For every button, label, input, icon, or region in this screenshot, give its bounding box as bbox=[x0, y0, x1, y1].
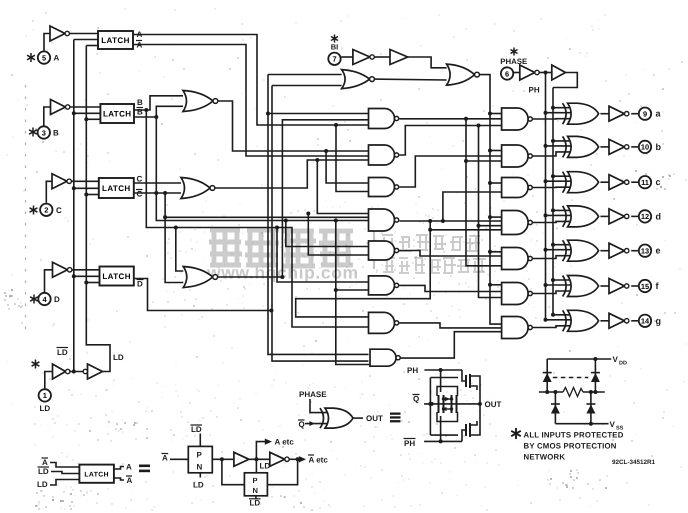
svg-text:A: A bbox=[127, 476, 133, 485]
svg-text:LD: LD bbox=[37, 480, 48, 489]
svg-text:Q: Q bbox=[413, 395, 419, 404]
svg-text:OUT: OUT bbox=[366, 414, 383, 423]
svg-text:A: A bbox=[54, 54, 60, 63]
svg-text:BI: BI bbox=[331, 43, 339, 52]
svg-text:B: B bbox=[137, 108, 143, 117]
svg-text:NETWORK: NETWORK bbox=[524, 453, 566, 462]
svg-text:LD: LD bbox=[57, 348, 68, 357]
svg-text:6: 6 bbox=[505, 69, 509, 78]
svg-text:10: 10 bbox=[641, 143, 649, 152]
svg-text:OUT: OUT bbox=[485, 400, 502, 409]
svg-text:LATCH: LATCH bbox=[101, 36, 130, 45]
svg-text:LD: LD bbox=[260, 462, 271, 471]
svg-text:LATCH: LATCH bbox=[102, 184, 131, 193]
svg-text:DD: DD bbox=[619, 361, 627, 367]
svg-text:13: 13 bbox=[641, 247, 649, 256]
svg-text:A etc: A etc bbox=[309, 455, 329, 464]
svg-text:LD: LD bbox=[191, 425, 202, 434]
svg-text:7: 7 bbox=[332, 55, 336, 64]
svg-text:C: C bbox=[137, 175, 143, 184]
svg-text:15: 15 bbox=[641, 282, 649, 291]
svg-text:D: D bbox=[54, 295, 60, 304]
svg-text:92CL-34512R1: 92CL-34512R1 bbox=[612, 459, 656, 466]
svg-text:b: b bbox=[656, 142, 662, 152]
svg-text:B: B bbox=[53, 129, 59, 138]
svg-text:PHASE: PHASE bbox=[299, 390, 327, 399]
svg-text:N: N bbox=[253, 486, 258, 495]
svg-text:V: V bbox=[610, 420, 616, 429]
svg-text:A: A bbox=[162, 454, 168, 463]
svg-text:PH: PH bbox=[529, 86, 540, 95]
svg-text:12: 12 bbox=[641, 212, 649, 221]
svg-text:N: N bbox=[197, 463, 203, 472]
svg-text:e: e bbox=[656, 246, 661, 256]
svg-text:5: 5 bbox=[42, 53, 46, 62]
svg-text:14: 14 bbox=[641, 317, 650, 326]
svg-text:PH: PH bbox=[404, 439, 415, 448]
svg-text:LATCH: LATCH bbox=[102, 272, 131, 281]
svg-text:LD: LD bbox=[38, 467, 49, 476]
svg-text:LD: LD bbox=[113, 353, 124, 362]
svg-text:PH: PH bbox=[407, 366, 418, 375]
svg-text:LATCH: LATCH bbox=[103, 110, 132, 119]
svg-text:1: 1 bbox=[43, 391, 47, 400]
svg-text:LD: LD bbox=[193, 481, 204, 490]
svg-text:3: 3 bbox=[42, 128, 46, 137]
svg-text:LATCH: LATCH bbox=[84, 472, 109, 479]
svg-text:C: C bbox=[56, 206, 62, 215]
svg-text:C: C bbox=[137, 190, 143, 199]
svg-text:LD: LD bbox=[250, 499, 261, 508]
svg-text:A: A bbox=[137, 30, 143, 39]
svg-text:BY CMOS PROTECTION: BY CMOS PROTECTION bbox=[524, 442, 617, 451]
svg-text:PHASE: PHASE bbox=[500, 57, 527, 66]
svg-text:A etc: A etc bbox=[275, 438, 295, 447]
svg-text:P: P bbox=[253, 476, 258, 485]
svg-text:A: A bbox=[42, 458, 48, 467]
svg-text:P: P bbox=[197, 451, 203, 460]
svg-text:9: 9 bbox=[643, 110, 647, 119]
svg-text:LD: LD bbox=[39, 404, 50, 413]
svg-text:g: g bbox=[656, 316, 662, 326]
svg-text:c: c bbox=[656, 177, 661, 187]
svg-text:B: B bbox=[137, 98, 143, 107]
svg-text:d: d bbox=[656, 211, 662, 221]
svg-text:A: A bbox=[137, 41, 143, 50]
svg-text:11: 11 bbox=[641, 178, 649, 187]
svg-text:V: V bbox=[613, 355, 619, 364]
svg-text:2: 2 bbox=[44, 206, 48, 215]
svg-text:D: D bbox=[137, 280, 143, 289]
svg-text:ALL INPUTS PROTECTED: ALL INPUTS PROTECTED bbox=[524, 431, 624, 440]
svg-text:Q: Q bbox=[299, 420, 305, 429]
svg-text:A: A bbox=[126, 463, 132, 472]
